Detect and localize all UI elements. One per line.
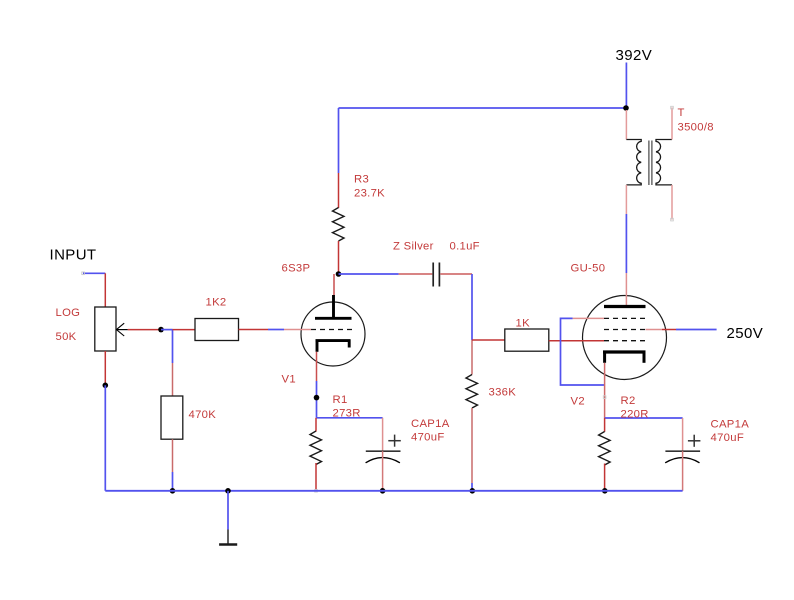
- wire: 1K to V2 grid (red): [549, 340, 604, 342]
- resistor R2 220R zigzag: [599, 432, 611, 465]
- wire: R3 top blue segment: [338, 108, 340, 173]
- pin: V2 anode lead (pink): [625, 273, 627, 307]
- svg-text:T: T: [678, 107, 685, 119]
- wire: coupling cap right lead: [440, 273, 472, 275]
- wire: red to 1K2: [173, 329, 196, 331]
- wire: g3-to-cathode blue loop: [561, 318, 605, 385]
- wire: ground bus: [105, 490, 682, 492]
- svg-text:50K: 50K: [56, 331, 77, 343]
- pin: cap C2 top lead: [682, 418, 684, 451]
- pin: cap C2 bottom lead to bus: [682, 451, 684, 491]
- wire: R2 lower red lead: [604, 464, 606, 491]
- svg-text:220R: 220R: [621, 409, 649, 421]
- pin: V1 grid pin (pink): [284, 329, 311, 331]
- V1 cathode: [316, 340, 351, 352]
- wire: R3 lower red lead to anode junction: [338, 241, 340, 274]
- wire: anode junction to coupling cap (blue): [339, 273, 399, 275]
- svg-text:3500/8: 3500/8: [678, 122, 714, 134]
- svg-text:Z Silver: Z Silver: [393, 241, 434, 253]
- junction R2 on bus: [602, 488, 608, 494]
- primary winding: [626, 140, 641, 185]
- svg-text:R2: R2: [621, 395, 636, 407]
- pin: V1 anode lead (red): [333, 274, 335, 296]
- tube V2 GU-50 envelope: [583, 296, 667, 380]
- svg-text:1K2: 1K2: [206, 297, 227, 309]
- pin: bypass cap C1 top lead: [382, 418, 384, 451]
- pin: g2 lead out (pink then red): [646, 329, 663, 331]
- resistor R1 273R zigzag: [310, 431, 322, 464]
- resistor 1K2 body: [195, 319, 239, 341]
- resistor R3 23.7K zigzag: [333, 208, 345, 241]
- wire: 392V stub down to junction: [625, 63, 627, 109]
- pin: secondary top: [671, 108, 673, 140]
- svg-text:V2: V2: [571, 396, 585, 408]
- capacitor CAP1A 470uF (V2 bypass): [665, 435, 700, 463]
- junction below pot: [103, 383, 109, 389]
- junction on grid wire: [158, 327, 164, 333]
- wire: blue jog junction to 470K tap: [161, 329, 173, 331]
- potentiometer LOG 50K body: [95, 307, 116, 351]
- svg-text:CAP1A: CAP1A: [711, 419, 750, 431]
- svg-text:392V: 392V: [616, 47, 653, 64]
- wire: ground stem (blue): [227, 491, 229, 530]
- wire: 470K lower red lead: [172, 439, 174, 472]
- wire: 336K blue to bus: [471, 483, 473, 491]
- pin: primary top: [625, 110, 627, 140]
- pin: V2 cathode lead (pink/red): [604, 363, 606, 418]
- potentiometer wiper arrow: [116, 323, 127, 336]
- svg-text:1K: 1K: [516, 318, 531, 330]
- svg-text:470K: 470K: [189, 409, 217, 421]
- junction at transformer primary top: [623, 105, 629, 111]
- V2 grid g2 (dashed): [604, 329, 646, 331]
- wire: blue drop from cap to 1K node: [471, 274, 473, 340]
- svg-text:470uF: 470uF: [711, 432, 745, 444]
- pin: bypass cap C1 bottom lead: [382, 451, 384, 491]
- wire: R1 lower red lead to bus: [315, 463, 317, 490]
- junction 470K on bus: [170, 488, 176, 494]
- svg-text:470uF: 470uF: [411, 432, 445, 444]
- resistor 1K body: [505, 329, 549, 351]
- endpoint marker R1 bottom: [315, 490, 318, 493]
- svg-text:R3: R3: [354, 174, 369, 186]
- wire: input stub: [83, 272, 105, 274]
- pin: secondary bottom: [671, 185, 673, 220]
- wire: 1K2 to V1 grid (red): [239, 329, 269, 331]
- tube V1 6S3P envelope: [301, 302, 365, 366]
- core: [648, 141, 650, 186]
- wire: node to 1K (red): [472, 339, 505, 341]
- capacitor Z Silver 0.1uF: [433, 263, 439, 287]
- resistor 470K body: [161, 396, 183, 439]
- V2 cathode: [603, 351, 646, 363]
- resistor 336K zigzag: [466, 375, 478, 408]
- wire: 336K column red upper: [471, 340, 473, 375]
- svg-text:R1: R1: [333, 394, 348, 406]
- svg-text:250V: 250V: [727, 325, 764, 342]
- svg-text:336K: 336K: [489, 387, 517, 399]
- svg-text:GU-50: GU-50: [571, 263, 606, 275]
- endpoint marker cathode wire: [603, 396, 606, 399]
- pin: V1 cathode lead red: [316, 352, 318, 381]
- endpoint marker secondary top: [671, 106, 674, 109]
- svg-text:INPUT: INPUT: [50, 247, 97, 264]
- wire: g2 red to blue: [662, 329, 676, 331]
- junction ground stem: [225, 488, 231, 494]
- endpoint marker secondary bottom: [671, 218, 674, 221]
- wire: cathode corner to bypass cap (blue): [317, 417, 383, 419]
- wire: pot bottom red lead: [104, 351, 106, 385]
- svg-text:0.1uF: 0.1uF: [450, 241, 480, 253]
- wire: cathode blue to junction: [316, 381, 318, 418]
- wire: 470K blue to bus: [172, 472, 174, 491]
- wire: blue bit: [268, 329, 284, 331]
- junction on cathode wire: [314, 395, 320, 401]
- secondary winding: [656, 140, 672, 185]
- V1 grid (dashed): [311, 329, 354, 331]
- wire: R3 upper red lead: [338, 173, 340, 208]
- wire: 336K lower red lead: [471, 408, 473, 483]
- wire: R1 upper red lead: [315, 418, 317, 432]
- wire: red lead into coupling cap left: [399, 273, 433, 275]
- ground symbol: [219, 530, 237, 545]
- transformer T 3500/8: [626, 106, 673, 221]
- wire: wiper to junction (red): [128, 329, 161, 331]
- svg-text:V1: V1: [282, 374, 296, 386]
- junction 336K on bus: [470, 488, 476, 494]
- wire: top B+ rail from R3 to transformer junction: [339, 107, 627, 109]
- svg-text:23.7K: 23.7K: [354, 188, 385, 200]
- pin: primary bottom: [625, 185, 627, 214]
- svg-text:6S3P: 6S3P: [282, 263, 311, 275]
- wire: 470K upper red lead: [172, 363, 174, 396]
- endpoint marker input: [82, 272, 85, 275]
- V1 anode (plate): [315, 295, 352, 319]
- wire: blue to 250V: [676, 329, 717, 331]
- junction node: V1 anode: [336, 271, 342, 277]
- V2 grid g1 (dashed): [604, 340, 646, 342]
- wire: transformer primary bottom blue to V2 anode: [625, 214, 627, 273]
- wire: cathode corner to cap2 (blue): [605, 417, 683, 419]
- V2 grid g3 (dashed): [604, 317, 646, 319]
- svg-text:CAP1A: CAP1A: [411, 418, 450, 430]
- wire: 470K tap down (blue): [172, 330, 174, 363]
- wire: red drop to potentiometer top: [104, 273, 106, 307]
- V2 anode (plate bar): [604, 305, 646, 308]
- svg-text:LOG: LOG: [56, 307, 81, 319]
- junction cap C1 on bus: [380, 488, 386, 494]
- capacitor CAP1A 470uF (V1 bypass): [366, 435, 401, 463]
- pin: g3 stub (pink): [573, 317, 604, 319]
- wire: R2 upper red lead: [604, 418, 606, 432]
- svg-text:273R: 273R: [333, 408, 361, 420]
- wire: blue drop to ground bus: [104, 385, 106, 491]
